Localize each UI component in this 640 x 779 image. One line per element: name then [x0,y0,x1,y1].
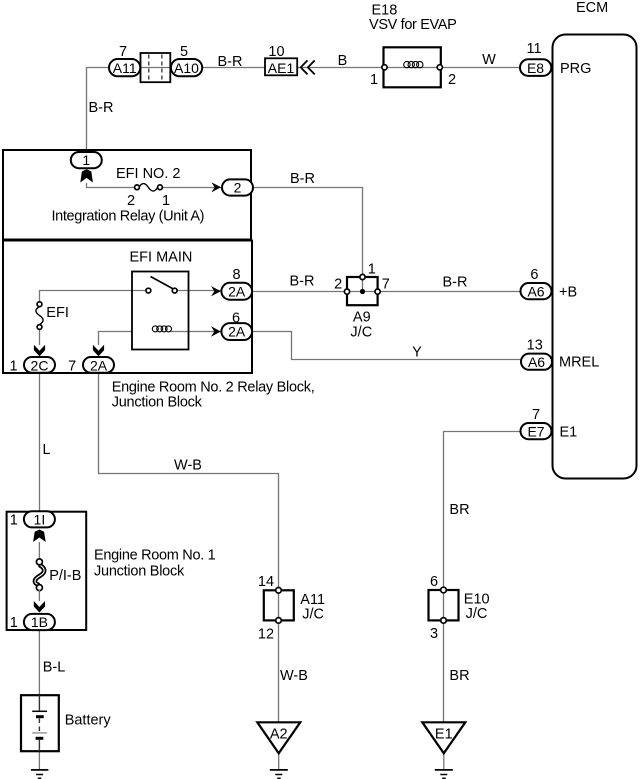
svg-text:PRG: PRG [560,61,591,77]
connector 2A pin 6 [221,311,252,341]
svg-text:7: 7 [382,277,390,293]
wire battery to ground [38,751,40,769]
svg-text:A10: A10 [174,60,199,76]
connector E7 pin 7 (E1) [521,407,552,439]
svg-text:2: 2 [127,193,135,209]
svg-text:2: 2 [234,179,242,195]
ground point A2 [257,722,300,753]
svg-text:2: 2 [334,277,342,293]
svg-text:+B: +B [559,285,577,301]
svg-text:A6: A6 [527,283,544,299]
wire EFI fuse to connector 2C [39,329,41,345]
fusible link P/I-B [35,559,82,591]
svg-text:6: 6 [232,311,240,327]
ground point E1 [422,722,465,753]
svg-text:1B: 1B [31,614,48,630]
ground E1 [435,770,453,778]
fuse EFI NO. 2 [116,166,180,209]
arrow right into 2A pin8 [211,286,221,296]
arrow up into connector 1 [80,169,93,182]
wire B-L 1B to battery [38,630,40,696]
svg-text:6: 6 [430,574,438,590]
svg-text:B-R: B-R [290,171,315,187]
svg-text:MREL: MREL [559,355,599,371]
wire W-B 2A pin7 to junction A11 [99,372,279,590]
arrow down into 2C [34,345,45,357]
arrow right into 2A pin6 [211,326,221,336]
junction connector E10 [429,574,490,642]
svg-text:A2: A2 [270,727,288,743]
svg-text:J/C: J/C [466,606,488,622]
connector A6 pin 13 (MREL) [521,338,552,370]
junction block ER no.1 box [7,512,87,630]
integration relay box [3,150,251,240]
svg-text:1: 1 [370,72,378,88]
wire E1 triangle to ground [443,753,445,769]
svg-text:12: 12 [258,627,274,643]
svg-text:5: 5 [180,44,188,60]
wire switch right leg to connector 2A pin8 [177,290,222,292]
svg-text:B-R: B-R [89,100,114,116]
wire B-R from relay pin1 up and right along top row to ECM [87,68,521,153]
svg-text:E1: E1 [435,727,453,743]
svg-text:E1: E1 [560,425,578,441]
svg-text:10: 10 [268,44,284,60]
svg-text:2A: 2A [90,357,108,373]
svg-text:7: 7 [119,44,127,60]
svg-text:1I: 1I [34,512,46,528]
svg-text:A9: A9 [353,310,371,326]
svg-text:2: 2 [448,72,456,88]
svg-text:1: 1 [9,358,17,374]
connector A10 pin 5 [171,44,202,76]
svg-text:2A: 2A [228,283,246,299]
arrow down into 2A [93,345,104,357]
svg-text:1: 1 [368,262,376,278]
wire switch left leg to EFI fuse [40,291,147,303]
connector A6 pin 6 (+B) [521,267,552,299]
svg-text:P/I-B: P/I-B [49,568,81,584]
svg-text:2C: 2C [31,357,49,373]
svg-text:W: W [482,52,496,68]
svg-text:EFI NO. 2: EFI NO. 2 [116,166,180,182]
wire from integration relay fuse row [87,183,223,188]
svg-text:B-R: B-R [290,274,315,290]
svg-text:E7: E7 [527,423,544,439]
arrow down into 1B [34,601,45,613]
svg-text:14: 14 [258,574,274,590]
relay EFI MAIN box [132,272,189,350]
ground battery [31,770,49,778]
connector 2C pin 1 [9,357,55,374]
wire B-R junction A9 pin7 to ECM +B [379,291,521,293]
relay block no.2 box [3,241,252,374]
svg-text:AE1: AE1 [268,60,295,76]
connector 1B pin 1 [10,614,55,631]
svg-text:E8: E8 [527,60,544,76]
svg-text:EFI: EFI [46,305,69,321]
svg-text:Engine Room No. 1: Engine Room No. 1 [94,548,216,564]
arrow up into 1I [33,530,46,543]
svg-text:1: 1 [10,615,18,631]
wire BR ECM E1 pin to junction E10 [444,432,521,591]
connector E8 pin 11 (PRG) [520,41,551,76]
svg-text:B-R: B-R [443,275,468,291]
svg-text:VSV for EVAP: VSV for EVAP [369,17,456,33]
svg-text:Battery: Battery [65,713,112,729]
svg-text:B-L: B-L [43,660,66,676]
svg-text:7: 7 [532,407,540,423]
connector 1I pin 1 [10,511,55,528]
junction connector A11 [258,574,325,643]
connector 2A pin 7 [68,357,114,374]
svg-text:J/C: J/C [350,325,372,341]
svg-text:BR: BR [449,668,469,684]
svg-text:8: 8 [232,267,240,283]
svg-text:1: 1 [162,193,170,209]
ground A2 [270,770,288,778]
relay coil [152,326,171,332]
svg-text:A6: A6 [528,354,545,370]
wire L connector 2C to junction block 1I [39,372,41,512]
svg-text:Y: Y [412,345,422,361]
svg-text:6: 6 [530,267,538,283]
connector 1 on relay block top [71,152,102,168]
battery [21,695,111,751]
svg-text:Junction Block: Junction Block [94,564,185,580]
svg-text:B-R: B-R [218,54,243,70]
svg-text:Integration Relay (Unit A): Integration Relay (Unit A) [52,209,205,225]
svg-text:EFI MAIN: EFI MAIN [130,250,193,266]
connector 2 relay pin [222,179,253,195]
chevron in-harness arrows [301,60,315,74]
arrow right into relay pin2 [211,182,221,192]
wire coil left leg down to connector 2A pin7 [99,332,133,346]
wire B-R relay pin2 to junction A9 pin1 [253,188,363,277]
svg-text:13: 13 [527,338,543,354]
svg-text:W-B: W-B [280,668,308,684]
connector AE1 pin 10 [265,44,297,76]
connector 2A pin 8 [221,267,252,300]
svg-text:11: 11 [526,41,541,57]
svg-text:J/C: J/C [302,607,324,623]
svg-text:Engine Room No. 2 Relay Block,: Engine Room No. 2 Relay Block, [112,380,315,396]
svg-text:Junction Block: Junction Block [112,395,203,411]
svg-text:1: 1 [10,513,18,529]
wire B-R 2A pin8 to junction A9 pin2 [252,291,346,293]
wire coil right leg to connector 2A pin6 [170,331,222,333]
svg-text:3: 3 [430,626,438,642]
wire Y 2A pin6 to ECM MREL [252,332,522,360]
wire through junction A11 to ground A2 [278,590,280,722]
svg-text:ECM: ECM [576,0,608,16]
svg-text:L: L [42,442,50,458]
wire arrow to fusible link [38,542,40,560]
relay switch [146,277,177,294]
wire BR junction E10 to ground E1 [443,590,445,722]
solenoid E18 VSV for EVAP [369,3,456,89]
svg-text:BR: BR [449,502,469,518]
connector A11 pin 7 [109,44,140,76]
svg-text:B: B [338,53,348,69]
wire A2 triangle to ground [278,753,280,769]
svg-text:1: 1 [82,152,90,168]
ECM box [553,35,637,479]
svg-text:7: 7 [68,358,76,374]
svg-text:W-B: W-B [174,458,202,474]
svg-text:A11: A11 [113,60,137,76]
wire fusible link to arrow [38,590,40,601]
junction connector A9 [334,262,390,341]
fuse EFI [36,302,69,330]
connector joint block A11-A10 [141,53,171,82]
